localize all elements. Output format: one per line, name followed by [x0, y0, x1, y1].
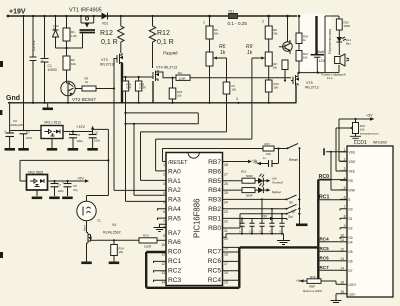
ground main [43, 103, 54, 110]
svg-text:7: 7 [163, 219, 165, 223]
svg-text:0,1 R: 0,1 R [157, 39, 174, 46]
svg-text:D7: D7 [349, 269, 353, 273]
svg-text:100R: 100R [179, 77, 187, 81]
svg-text:8: 8 [344, 214, 346, 218]
svg-text:12: 12 [161, 262, 165, 266]
resistor R17 [263, 142, 287, 156]
display LCD1 WH1602 [347, 140, 393, 297]
svg-text:D6: D6 [349, 259, 353, 263]
wire R10 wiper [336, 128, 348, 171]
svg-text:14: 14 [161, 281, 165, 285]
resistor R16 [223, 188, 256, 198]
svg-text:V4: V4 [112, 223, 116, 227]
wire RA1 from R6 [141, 132, 227, 181]
svg-text:/RESET: /RESET [168, 160, 188, 166]
svg-text:14: 14 [340, 266, 344, 270]
svg-text:62k: 62k [214, 32, 219, 36]
svg-text:1k: 1k [85, 80, 89, 84]
capacitor C3 [4, 119, 24, 151]
display pin numbers [340, 148, 345, 294]
svg-text:контрастность: контрастность [360, 132, 379, 136]
svg-text:4: 4 [163, 191, 165, 195]
switch dn [223, 195, 301, 205]
svg-text:22: 22 [224, 219, 228, 223]
svg-text:RA4: RA4 [168, 206, 181, 213]
wire +5V rail [48, 177, 90, 183]
svg-text:16: 16 [224, 271, 228, 275]
svg-text:100n: 100n [58, 189, 65, 193]
svg-text:0,1 R: 0,1 R [101, 39, 118, 46]
svg-text:1k: 1k [247, 50, 253, 56]
svg-text:LED-: LED- [349, 292, 356, 296]
svg-text:12 в: 12 в [327, 76, 333, 80]
svg-text:100: 100 [249, 230, 254, 234]
wire RB7 5v [223, 160, 259, 165]
svg-text:1.8k: 1.8k [71, 34, 77, 38]
svg-text:R4: R4 [178, 71, 182, 75]
svg-text:RA2: RA2 [168, 187, 181, 194]
svg-text:20k: 20k [274, 86, 279, 90]
transistor VT2 [61, 70, 96, 104]
capacitor C9 reset [252, 149, 279, 168]
svg-text:Sel: Sel [288, 215, 293, 219]
svg-text:16: 16 [340, 290, 344, 294]
svg-text:RB3: RB3 [208, 197, 221, 204]
svg-text:4: 4 [344, 176, 346, 180]
svg-text:Яркость ЖКИ: Яркость ЖКИ [303, 289, 322, 293]
chip pin numbers right [224, 163, 228, 285]
svg-text:100R: 100R [139, 86, 146, 90]
wire RC7 [318, 265, 340, 271]
svg-text:Только с зарядкой: Только с зарядкой [321, 73, 346, 77]
svg-text:D3: D3 [349, 236, 353, 240]
capacitor C5 [68, 131, 83, 151]
svg-text:Reset: Reset [289, 158, 298, 162]
svg-text:RC0: RC0 [168, 249, 182, 256]
resistor R21 [296, 51, 309, 74]
svg-text:9: 9 [344, 224, 346, 228]
svg-text:6: 6 [163, 210, 165, 214]
wire reversal loop [325, 16, 339, 73]
svg-text:17: 17 [224, 262, 228, 266]
svg-text:1000µx25v: 1000µx25v [9, 123, 24, 127]
resistor R4 [176, 71, 291, 81]
svg-text:3: 3 [163, 182, 165, 186]
svg-text:11: 11 [340, 238, 344, 242]
svg-text:T1: T1 [97, 219, 101, 223]
contrast +5V [339, 114, 375, 121]
transistor VT4 [151, 65, 177, 103]
svg-text:R12: R12 [100, 30, 113, 37]
svg-text:WH1602: WH1602 [373, 141, 387, 145]
svg-text:RC7: RC7 [208, 249, 222, 256]
resistor R18 backlight [296, 275, 340, 289]
svg-text:27: 27 [224, 172, 228, 176]
svg-text:10k: 10k [177, 94, 182, 98]
svg-text:24: 24 [224, 201, 228, 205]
svg-text:560R: 560R [246, 174, 253, 178]
diode VD1 [102, 13, 109, 26]
potentiometer R6 [206, 44, 227, 104]
wire R9 wiper down [251, 58, 253, 139]
resistor R5 [206, 15, 219, 52]
chip PIC16F886 [166, 153, 223, 286]
ground LED- [331, 301, 342, 303]
svg-text:+: + [69, 131, 71, 135]
svg-text:25: 25 [224, 191, 228, 195]
svg-text:dn: dn [289, 201, 293, 205]
svg-text:1: 1 [344, 148, 346, 152]
fan T1 [77, 201, 101, 231]
border tick 2 [0, 110, 2, 115]
capacitor C6 [87, 129, 100, 150]
wire RA3 [126, 124, 167, 202]
wire caps bottom [223, 233, 284, 240]
svg-text:15: 15 [224, 281, 228, 285]
svg-text:RC6: RC6 [320, 255, 330, 260]
svg-text:ПВР: ПВР [309, 285, 315, 289]
svg-text:10k: 10k [119, 250, 124, 254]
button Reset [287, 144, 301, 163]
svg-text:RB5: RB5 [208, 178, 221, 185]
wire pin15-18 stubs [223, 247, 241, 280]
resistor R15 [223, 170, 256, 184]
wire VDD [339, 119, 347, 161]
svg-text:2: 2 [163, 172, 165, 176]
svg-text:C7: C7 [58, 183, 62, 187]
chip pin names left [168, 160, 188, 284]
LED VD3 [255, 174, 283, 185]
pin 7 stub [158, 218, 167, 220]
svg-text:9: 9 [163, 234, 165, 238]
resistor R24a [336, 19, 350, 37]
svg-text:E: E [349, 198, 351, 202]
ground buttons [296, 224, 308, 227]
wire 12V branch [20, 126, 110, 202]
svg-text:LED+: LED+ [349, 283, 357, 287]
svg-text:Вкл: Вкл [346, 42, 351, 46]
resistor R12 (discharge) [149, 15, 178, 68]
svg-text:RA6: RA6 [168, 239, 181, 246]
svg-text:VT3: VT3 [101, 58, 108, 62]
svg-text:D5: D5 [349, 250, 353, 254]
svg-text:D1: D1 [349, 217, 353, 221]
svg-text:0.1: 0.1 [239, 230, 243, 234]
svg-text:VSS: VSS [349, 150, 355, 154]
resistor R3 [76, 77, 116, 92]
svg-text:VD1: VD1 [102, 22, 108, 26]
svg-text:12V: 12V [319, 59, 326, 63]
wire +12V rail [63, 125, 93, 133]
switch up [223, 204, 301, 213]
svg-text:R13: R13 [143, 234, 149, 238]
svg-text:C5: C5 [77, 133, 81, 137]
svg-text:0.1 - 0.25: 0.1 - 0.25 [228, 21, 248, 26]
svg-text:47µ: 47µ [73, 188, 78, 192]
svg-text:5: 5 [344, 186, 346, 190]
svg-text:+5V: +5V [77, 177, 84, 181]
svg-text:C2 0.1: C2 0.1 [32, 40, 36, 51]
chip pin numbers left [161, 163, 165, 285]
svg-text:RC4: RC4 [208, 277, 222, 284]
resistor R23 [169, 77, 182, 104]
display pin stubs [336, 152, 347, 301]
svg-text:10: 10 [161, 243, 165, 247]
svg-text:+19V: +19V [9, 9, 26, 16]
svg-text:IRL3713: IRL3713 [100, 63, 114, 67]
svg-text:VT5: VT5 [306, 81, 313, 85]
svg-text:RB0: RB0 [208, 225, 221, 232]
svg-text:Буфер: Буфер [272, 190, 282, 194]
svg-text:LCD1: LCD1 [354, 140, 367, 146]
svg-text:10000: 10000 [48, 68, 58, 72]
wire pin12 stub [154, 261, 167, 263]
switch Sel [223, 209, 301, 218]
resistor R25 [135, 77, 145, 104]
svg-text:21: 21 [224, 229, 228, 233]
pin 6 stub [158, 209, 167, 211]
transistor VT5 [291, 72, 325, 103]
svg-text:VR1 L7812: VR1 L7812 [44, 121, 61, 125]
svg-text:100R: 100R [144, 245, 152, 249]
svg-text:18: 18 [224, 252, 228, 256]
svg-text:10k: 10k [303, 56, 308, 60]
svg-text:D0: D0 [349, 207, 353, 211]
capacitor C1 [41, 15, 58, 104]
svg-text:100µ: 100µ [77, 139, 84, 143]
resistor R11 [228, 10, 248, 27]
capacitor row [239, 198, 287, 233]
wire +19V rail [7, 15, 325, 18]
transistor VT1 [69, 8, 102, 33]
resistor R20 [296, 15, 309, 51]
svg-text:1: 1 [163, 163, 165, 167]
svg-text:7: 7 [344, 205, 346, 209]
wire RC6 [318, 255, 340, 261]
battery Batt 12V [311, 16, 326, 73]
capacitor C7 [49, 181, 64, 199]
svg-text:Разряд: Разряд [163, 51, 178, 56]
svg-text:28: 28 [224, 163, 228, 167]
transistor VT6 [279, 15, 292, 54]
svg-text:Batt: Batt [318, 50, 324, 54]
svg-text:100n: 100n [94, 139, 101, 143]
resistor R13 [97, 234, 166, 249]
svg-text:26: 26 [224, 182, 228, 186]
svg-text:100R: 100R [344, 24, 351, 28]
LED VD4 [255, 183, 282, 194]
svg-text:RC4: RC4 [320, 236, 330, 241]
svg-text:RB1: RB1 [208, 215, 221, 222]
wire RA2 from R3 [114, 89, 166, 191]
svg-text:VEE: VEE [349, 169, 355, 173]
svg-text:IRL3713: IRL3713 [305, 86, 319, 90]
border tick 3 [0, 252, 3, 258]
svg-text:D4: D4 [349, 240, 353, 244]
svg-text:RB4: RB4 [208, 187, 221, 194]
svg-text:10k: 10k [272, 66, 277, 70]
wire VT3 gate [114, 59, 117, 89]
resistor R24 [122, 77, 131, 91]
resistor R22 [272, 60, 288, 82]
buzzer [335, 54, 349, 66]
svg-text:2: 2 [344, 157, 346, 161]
svg-text:100n: 100n [26, 136, 33, 140]
LED HL1 [337, 37, 352, 55]
svg-text:RC1: RC1 [168, 258, 182, 265]
wire button common [299, 150, 301, 224]
regulator VR2 7805 [27, 171, 48, 200]
svg-text:RS: RS [349, 179, 353, 183]
wire Gnd rail [8, 102, 297, 104]
potentiometer R9 [246, 44, 272, 66]
wire battery white zone [297, 14, 331, 72]
svg-text:15: 15 [340, 280, 344, 284]
resistor R14 [109, 240, 124, 264]
svg-text:13: 13 [161, 271, 165, 275]
resistor R2 [63, 48, 76, 81]
svg-text:10k: 10k [266, 152, 271, 156]
node 3 [236, 97, 240, 104]
wire 19V feed to VR1 [9, 15, 42, 148]
svg-text:RB2: RB2 [208, 206, 221, 213]
svg-text:+5v: +5v [253, 161, 259, 165]
svg-text:RC5: RC5 [208, 267, 222, 274]
svg-text:RC3: RC3 [168, 277, 182, 284]
svg-text:RA1: RA1 [168, 178, 181, 185]
svg-text:RA7: RA7 [168, 230, 181, 237]
svg-text:6: 6 [344, 195, 346, 199]
svg-text:10k: 10k [71, 62, 76, 66]
svg-text:RC5: RC5 [320, 246, 330, 251]
wire VT3-source to gates [121, 76, 151, 78]
svg-text:VT1 IRF4905: VT1 IRF4905 [69, 8, 102, 14]
svg-text:R12: R12 [157, 30, 170, 37]
svg-text:2: 2 [262, 20, 264, 24]
wire VR2 input [20, 160, 27, 181]
svg-text:1n: 1n [263, 156, 267, 160]
svg-text:Полный: Полный [272, 181, 283, 185]
svg-text:PIC16F886: PIC16F886 [193, 199, 202, 238]
label RC0 [318, 174, 347, 180]
wire RA0 from R9 [156, 139, 252, 171]
svg-text:VT4 IRL3713: VT4 IRL3713 [156, 65, 177, 69]
svg-text:3: 3 [344, 167, 346, 171]
wire pin13 stub [154, 271, 167, 273]
wire RC5 [318, 246, 340, 252]
svg-text:560R: 560R [246, 194, 253, 198]
resistor R12 (charge) [100, 15, 124, 53]
svg-text:10k: 10k [232, 88, 237, 92]
svg-text:RA3: RA3 [168, 197, 181, 204]
wire RC4 [318, 236, 340, 242]
svg-text:R17: R17 [265, 142, 271, 146]
svg-text:5: 5 [163, 201, 165, 205]
svg-text:3: 3 [236, 97, 238, 101]
capacitor C8 [62, 180, 78, 199]
svg-text:+12V: +12V [76, 125, 85, 129]
svg-text:RC2: RC2 [168, 267, 182, 274]
potentiometer R10 [348, 119, 379, 140]
svg-text:R15: R15 [241, 170, 247, 174]
bus thick right [239, 180, 318, 288]
svg-text:10: 10 [340, 233, 344, 237]
svg-text:Переполюсовка: Переполюсовка [328, 29, 332, 54]
svg-text:10R: 10R [126, 86, 131, 90]
svg-text:23: 23 [224, 210, 228, 214]
ground LCD pin1 [324, 148, 347, 190]
svg-text:R/W: R/W [349, 188, 355, 192]
capacitor C4 [18, 130, 32, 151]
svg-text:R11: R11 [229, 10, 235, 14]
svg-text:+: + [62, 180, 64, 184]
transistor VT3 [100, 53, 123, 103]
border tick 1 [0, 61, 3, 67]
zener VD2 [53, 15, 60, 48]
svg-text:1k: 1k [220, 50, 226, 56]
capacitor C2 [30, 15, 37, 104]
svg-text:RB7: RB7 [208, 159, 221, 166]
svg-text:Вент: Вент [83, 224, 87, 231]
display pin names [349, 150, 357, 296]
svg-text:+5V: +5V [366, 114, 373, 118]
svg-text:Gnd: Gnd [6, 95, 20, 102]
svg-text:9v: 9v [53, 27, 57, 31]
wire pin14 stub [154, 280, 167, 282]
wire RB0 caps top [223, 214, 288, 228]
svg-text:12: 12 [340, 247, 344, 251]
label RC1 [318, 195, 347, 201]
svg-text:1: 1 [203, 21, 205, 25]
resistor R1 [63, 15, 77, 48]
chip pin names right [208, 159, 222, 284]
svg-text:RC7: RC7 [320, 265, 330, 270]
transistor V4 [81, 221, 120, 264]
resistor R19 [265, 66, 279, 104]
svg-text:VT2 BC847: VT2 BC847 [72, 97, 96, 102]
note text [321, 73, 346, 81]
ground pin8 [154, 224, 167, 231]
ground caps [277, 241, 290, 245]
svg-text:RB6: RB6 [208, 168, 221, 175]
svg-text:RC6: RC6 [208, 258, 222, 265]
wire sense aux [133, 123, 166, 196]
svg-text:R18: R18 [310, 275, 316, 279]
svg-text:RA0: RA0 [168, 168, 181, 175]
svg-text:RLML2502: RLML2502 [103, 231, 121, 235]
wire reset line [163, 149, 264, 162]
svg-text:VDD: VDD [349, 160, 356, 164]
svg-text:62k: 62k [273, 32, 278, 36]
wire gate node [56, 34, 83, 50]
svg-text:RA5: RA5 [168, 215, 181, 222]
bus thick left [146, 252, 239, 288]
resistor R8 [265, 15, 278, 52]
wire W1 sense [124, 91, 198, 125]
svg-text:13: 13 [340, 257, 344, 261]
resistor R7 [223, 58, 236, 132]
svg-text:D2: D2 [349, 226, 353, 230]
regulator VR1 L7812 [41, 121, 63, 151]
svg-text:C4: C4 [26, 130, 30, 134]
svg-text:C6: C6 [95, 131, 99, 135]
